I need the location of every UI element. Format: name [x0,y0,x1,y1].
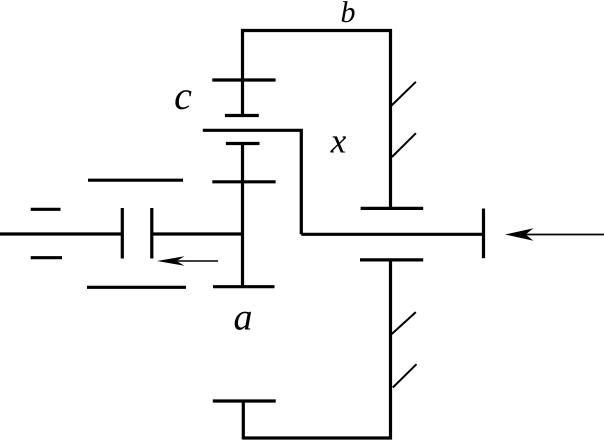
input shaft end bar [482,209,485,259]
label a [235,312,251,330]
clutch plate left [121,208,124,259]
bearing T-tick top of gear a shaft [226,142,260,145]
ring gear b lower T-end [360,258,423,261]
ring gear b right rim upper [389,29,392,208]
hatch mark 1 (fixed frame) [391,82,416,106]
ring gear b bottom rim [243,436,392,439]
output arrow head [157,256,185,265]
ring gear b upper T-end [361,207,424,210]
left gear tick lower [31,256,62,259]
shaft of gear a [241,144,244,287]
label c [175,90,191,109]
carrier x arm [203,130,301,234]
gear c tooth tick [212,78,275,81]
shaft of gear c [241,29,244,116]
gear a bottom T-end [213,285,275,288]
label b [342,1,355,22]
main axle right (carrier to input) [301,233,483,236]
hatch mark 3 (fixed frame) [392,312,416,334]
label x [330,136,346,152]
input arrow head [505,228,534,241]
left housing line lower [87,286,186,289]
ring gear b bottom-left vertical [242,401,245,440]
shaft between clutch and gear a [152,232,243,235]
output arrow line [166,260,218,262]
input arrow line [523,234,604,236]
ring gear b right rim lower [389,260,392,440]
output shaft left [0,232,122,235]
wire top (ring gear b rim to gear c shaft) [241,29,392,32]
clutch plate right [150,208,153,259]
left housing line upper [88,179,183,182]
left gear tick upper [31,208,61,211]
hatch mark 4 (fixed frame) [393,364,417,387]
gear a tooth tick [212,180,275,183]
hatch mark 2 (fixed frame) [392,133,416,157]
ring gear b bottom T-tick [213,399,276,402]
gear c bearing T-end [225,114,259,117]
